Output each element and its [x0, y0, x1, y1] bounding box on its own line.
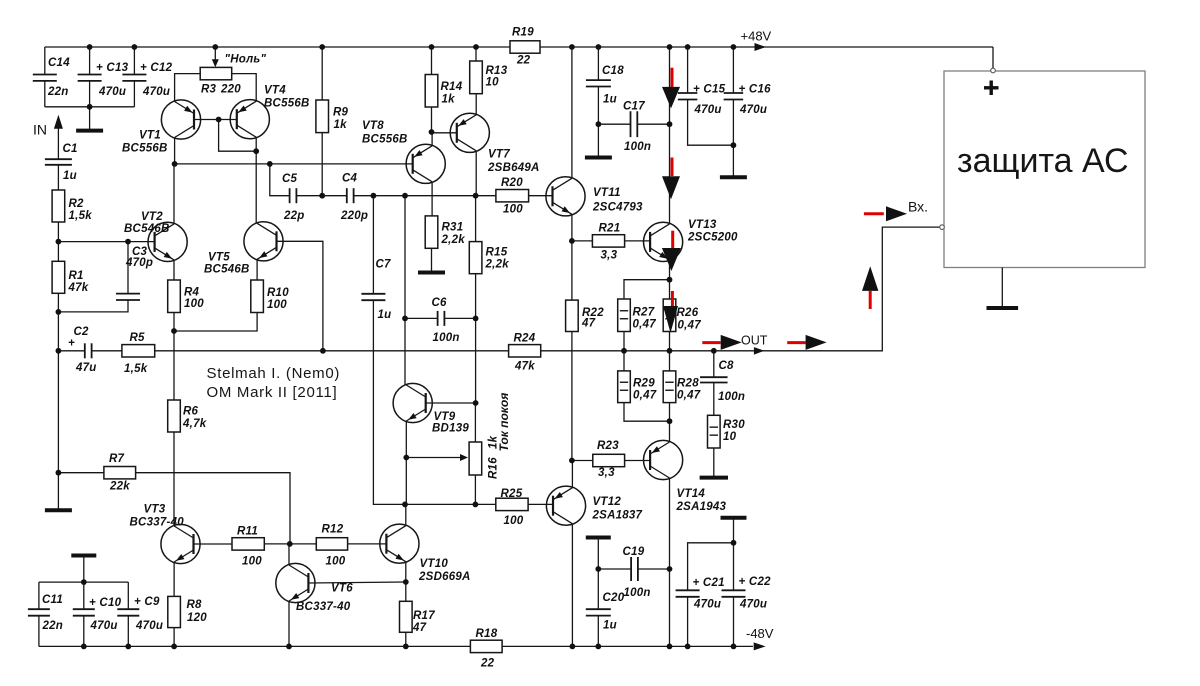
wire R16 bottom to lower rail — [474, 475, 476, 504]
wire R1 to node — [57, 293, 59, 312]
terminal circle box top — [991, 68, 996, 73]
svg-text:Вх.: Вх. — [908, 199, 928, 215]
node junction — [570, 644, 576, 650]
arrow out2 head — [806, 335, 827, 350]
node junction — [569, 238, 575, 244]
arrow up red stem — [869, 291, 872, 309]
svg-text:-48V: -48V — [746, 626, 774, 641]
svg-text:22: 22 — [516, 55, 531, 67]
wire R15 bottom to C6 node — [475, 274, 477, 319]
wire R29 top lead — [623, 351, 625, 371]
svg-text:BC337-40: BC337-40 — [296, 601, 351, 613]
node junction — [125, 239, 131, 245]
node junction — [125, 644, 131, 650]
node junction — [267, 161, 273, 167]
svg-text:0,47: 0,47 — [633, 390, 657, 402]
svg-text:C14: C14 — [48, 57, 70, 69]
wire VT13 collector up to rail — [669, 124, 671, 224]
wire VT11 emitter down — [571, 214, 573, 241]
wire R2 to node — [57, 222, 59, 242]
node junction — [667, 644, 673, 650]
svg-text:2SC5200: 2SC5200 — [687, 232, 738, 244]
label 1k rotated — [488, 435, 500, 449]
svg-text:R29: R29 — [633, 378, 655, 390]
svg-text:IN: IN — [33, 121, 47, 137]
svg-text:R6: R6 — [183, 406, 199, 418]
svg-text:VT12: VT12 — [593, 496, 622, 508]
svg-text:470u: 470u — [90, 620, 118, 632]
wire C15 top lead — [687, 47, 689, 93]
wire C1 to R2 — [57, 165, 59, 190]
wire R3 right to VT4 emitter — [232, 74, 257, 102]
ground under C13 — [76, 107, 103, 131]
wire R14 bottom to node — [431, 107, 433, 132]
wire VT14 collector down — [669, 478, 671, 646]
node junction — [403, 644, 409, 650]
svg-text:100n: 100n — [718, 391, 745, 403]
node junction — [731, 540, 737, 546]
wire collectors bus — [175, 163, 412, 165]
wire base node down to VT4 collector — [219, 120, 257, 152]
arrow current B head — [662, 176, 680, 199]
svg-text:2SA1943: 2SA1943 — [676, 501, 727, 513]
wire VT6 base lead — [308, 582, 405, 583]
node junction — [371, 193, 377, 199]
node junction — [569, 458, 575, 464]
svg-text:BC556B: BC556B — [122, 143, 168, 155]
svg-text:Ток покоя: Ток покоя — [497, 393, 511, 452]
transistor VT6 BC337-40 — [276, 563, 353, 613]
svg-text:100: 100 — [242, 556, 262, 568]
svg-text:470p: 470p — [125, 257, 153, 269]
node junction — [473, 502, 479, 508]
svg-text:R16: R16 — [488, 457, 500, 479]
svg-text:+: + — [68, 338, 75, 350]
wire R15 top lead — [475, 196, 477, 242]
wire rail to box — [992, 47, 994, 68]
svg-text:1,5k: 1,5k — [69, 210, 93, 222]
svg-text:2SA1837: 2SA1837 — [592, 510, 643, 522]
svg-text:R26: R26 — [677, 307, 699, 319]
svg-text:100n: 100n — [624, 587, 651, 599]
wire down to R7 node — [57, 351, 59, 473]
svg-text:VT4: VT4 — [264, 85, 286, 97]
svg-text:C19: C19 — [623, 546, 645, 558]
wire C8 to R30 — [713, 383, 715, 416]
wire C4 right to node — [354, 195, 374, 197]
transistor VT12 2SA1837 — [546, 486, 642, 525]
resistor R9 — [316, 100, 349, 133]
resistor R24 — [509, 333, 541, 373]
wire R28 top lead — [669, 351, 671, 371]
svg-text:47: 47 — [581, 318, 596, 330]
arrow Vx head — [886, 206, 907, 221]
capacitor C11 — [28, 594, 63, 632]
wire C12 top lead — [133, 47, 135, 75]
svg-text:1u: 1u — [603, 620, 617, 632]
svg-text:BC337-40: BC337-40 — [130, 517, 185, 529]
resistor R28 — [663, 371, 701, 403]
wire emitter node to R27 bend — [624, 280, 670, 299]
node junction — [56, 470, 62, 476]
svg-text:470u: 470u — [739, 599, 767, 611]
svg-text:VT6: VT6 — [331, 583, 353, 595]
svg-text:R12: R12 — [322, 524, 344, 536]
arrow current A red stem — [671, 68, 674, 87]
ground under C15 C16 — [720, 145, 747, 177]
svg-text:1u: 1u — [603, 94, 617, 106]
arrow current C head — [662, 248, 681, 271]
resistor R21 — [592, 223, 624, 262]
node junction — [595, 644, 601, 650]
transistor VT4 BC556B — [230, 85, 309, 139]
capacitor C16 — [724, 84, 771, 117]
wire R14 top lead — [431, 47, 433, 75]
wire C6 right lead — [444, 317, 475, 319]
resistor R27 — [618, 299, 657, 332]
capacitor C7 — [361, 259, 391, 322]
arrow out2 red stem — [787, 341, 805, 344]
node junction — [81, 579, 87, 585]
svg-text:100n: 100n — [433, 332, 460, 344]
svg-text:C20: C20 — [603, 592, 625, 604]
wire C6 left lead — [405, 317, 438, 319]
node junction — [429, 44, 435, 50]
svg-text:1u: 1u — [378, 309, 392, 321]
svg-text:VT13: VT13 — [688, 219, 717, 231]
wire R4 to tail node — [173, 313, 175, 332]
node junction — [667, 44, 673, 50]
wire C9 bottom lead — [127, 616, 129, 647]
wire VT9 emitter to lower rail — [405, 458, 407, 505]
wire R26 top lead — [669, 280, 671, 299]
rail tap above C22 — [721, 518, 747, 543]
svg-text:2SD669A: 2SD669A — [418, 571, 471, 583]
capacitor C18 — [586, 65, 624, 106]
svg-text:22n: 22n — [47, 86, 69, 98]
resistor R7 — [104, 453, 136, 493]
wire C20 top lead — [597, 569, 599, 609]
wire VT5 base to feedback node — [277, 241, 323, 350]
svg-text:10: 10 — [723, 431, 737, 443]
ground under R30 — [700, 448, 728, 478]
wire C18 bottom lead — [597, 87, 599, 125]
wire node to VT14 emitter — [669, 421, 671, 442]
svg-text:C7: C7 — [376, 259, 392, 271]
arrow on output wire — [754, 347, 765, 355]
wire VT9 collector up — [404, 318, 406, 385]
node junction — [402, 502, 408, 508]
wire feedback node to C2 — [58, 350, 84, 352]
wire C2 to R5 — [92, 350, 122, 352]
wire node to R1 — [57, 242, 59, 262]
wire R22 down across output — [571, 332, 573, 461]
transistor VT9 BD139 — [393, 383, 469, 434]
rail tap above C10 — [71, 556, 96, 583]
node junction — [172, 161, 178, 167]
svg-text:+48V: +48V — [741, 29, 772, 44]
arrow to R3 wiper — [214, 47, 216, 61]
node junction — [253, 148, 259, 154]
wire C14 bottom lead — [44, 81, 46, 107]
arrow current D head — [663, 306, 678, 333]
node junction — [596, 44, 602, 50]
capacitor C1 — [45, 143, 78, 182]
ground bottom of input divider — [45, 473, 72, 511]
svg-text:0,47: 0,47 — [678, 320, 702, 332]
wire R9 bottom lead — [321, 133, 323, 196]
node junction — [402, 316, 408, 322]
resistor R20 — [496, 177, 529, 216]
wire VT5 emitter to R10 — [256, 259, 258, 280]
svg-text:10: 10 — [486, 77, 500, 89]
wire C16 bottom lead — [732, 100, 734, 146]
wire R23 to VT14 base — [625, 460, 651, 462]
node junction — [171, 328, 177, 334]
svg-text:R19: R19 — [512, 27, 534, 39]
wire C9 top lead — [127, 582, 129, 609]
wire R25 to VT12 base — [528, 503, 553, 505]
resistor R11 — [232, 526, 264, 568]
wire C21 bottom lead — [687, 597, 689, 647]
wire VT12 collector down — [571, 524, 573, 647]
wire VT3 emitter to R8 — [173, 562, 175, 596]
svg-text:"Ноль": "Ноль" — [225, 54, 267, 66]
node junction — [667, 418, 673, 424]
capacitor C20 — [586, 592, 625, 632]
node junction — [429, 129, 435, 135]
rail tap above C20 — [586, 538, 611, 570]
wire C12 bottom lead — [133, 81, 135, 107]
wire R7 left node — [58, 472, 104, 474]
svg-text:C2: C2 — [74, 326, 90, 338]
wire VT9 emitter down — [405, 421, 407, 458]
svg-text:R15: R15 — [486, 247, 508, 259]
wire C5 branch from collector bus — [270, 164, 290, 196]
wire R12 to VT10 base — [348, 543, 387, 545]
svg-text:2,2k: 2,2k — [485, 259, 510, 271]
svg-text:C1: C1 — [63, 143, 78, 155]
wire VT6 emitter down — [288, 601, 290, 646]
svg-text:1,5k: 1,5k — [124, 363, 148, 375]
svg-text:BD139: BD139 — [432, 423, 469, 435]
svg-text:R20: R20 — [501, 177, 523, 189]
svg-text:VT9: VT9 — [434, 411, 456, 423]
wire C3 top lead — [127, 242, 129, 294]
svg-text:R27: R27 — [633, 307, 655, 319]
wire R3 left to VT1 emitter — [175, 74, 201, 102]
capacitor C12 — [122, 62, 172, 98]
node junction — [473, 44, 479, 50]
resistor R30 — [708, 415, 746, 448]
wire VT10 emitter down — [405, 562, 407, 602]
svg-text:470u: 470u — [142, 86, 170, 98]
node junction — [731, 142, 737, 148]
svg-text:OM Mark II [2011]: OM Mark II [2011] — [207, 384, 338, 401]
wire VT8 collector down to R31 — [431, 182, 433, 216]
node junction — [56, 239, 62, 245]
svg-text:100: 100 — [267, 299, 287, 311]
capacitor C5 — [282, 173, 305, 222]
arrow -48V direction — [754, 642, 766, 650]
wire C4 left lead — [322, 195, 347, 197]
svg-text:47k: 47k — [514, 361, 535, 373]
svg-text:R9: R9 — [333, 107, 349, 119]
transistor VT13 2SC5200 — [644, 219, 739, 262]
transistor VT10 2SD669A — [380, 524, 471, 583]
node junction — [685, 44, 691, 50]
resistor R18 — [470, 628, 502, 670]
svg-text:VT1: VT1 — [139, 130, 161, 142]
wire C8 top lead — [713, 351, 715, 377]
label Ток покоя rotated — [497, 393, 511, 452]
node junction — [667, 566, 673, 572]
svg-text:OUT: OUT — [741, 334, 768, 348]
wire R21 left lead — [572, 240, 593, 242]
resistor R10 — [251, 280, 289, 313]
node junction — [81, 644, 87, 650]
svg-text:470u: 470u — [693, 599, 721, 611]
wire C11 lead — [38, 582, 40, 609]
wire VT12 emitter up — [571, 461, 573, 488]
svg-text:R14: R14 — [441, 81, 463, 93]
node junction — [596, 121, 602, 127]
svg-text:R17: R17 — [413, 610, 435, 622]
wire C11 bottom bend — [38, 616, 40, 647]
wire rail arrow line — [669, 47, 671, 124]
capacitor C22 — [722, 576, 772, 611]
capacitor C10 — [73, 597, 122, 632]
wire VT10 collector up — [405, 504, 407, 525]
ground under protection box — [987, 268, 1019, 309]
arrow IN input — [54, 115, 63, 129]
transistor VT8 BC556B — [362, 120, 445, 183]
resistor R6 — [168, 400, 207, 432]
wire R7 right bend down — [136, 473, 290, 544]
svg-text:+ C16: + C16 — [739, 84, 772, 96]
svg-text:47k: 47k — [68, 282, 89, 294]
ground under C18 — [585, 124, 612, 157]
transistor VT2 BC546B — [124, 211, 187, 262]
wire R29 bottom bend — [624, 403, 670, 422]
node junction — [320, 348, 326, 354]
wire VT2 collector up — [173, 164, 175, 224]
svg-text:0,47: 0,47 — [677, 390, 701, 402]
capacitor C13 — [78, 62, 129, 98]
svg-text:1k: 1k — [442, 94, 456, 106]
wire C19 right lead — [638, 568, 670, 570]
node junction — [473, 316, 479, 322]
node junction — [212, 44, 218, 50]
node junction — [667, 348, 673, 354]
wire VT7 collector down — [475, 151, 477, 196]
wire VT4 collector down — [255, 137, 257, 223]
svg-text:Stelmah I. (Nem0): Stelmah I. (Nem0) — [207, 365, 341, 382]
svg-text:+ C10: + C10 — [89, 597, 122, 609]
svg-text:47u: 47u — [75, 362, 97, 374]
resistor R22 — [566, 300, 605, 331]
arrow +48V direction — [755, 43, 767, 51]
resistor R16 bias trimmer — [469, 442, 482, 475]
svg-text:R4: R4 — [184, 287, 200, 299]
svg-text:100: 100 — [184, 298, 204, 310]
wire R9 top lead — [321, 47, 323, 100]
capacitor C15 — [678, 84, 726, 117]
node junction — [711, 348, 717, 354]
wire VT9 base lead — [426, 402, 476, 404]
node junction — [216, 117, 222, 123]
svg-text:220: 220 — [220, 84, 241, 96]
wire C14 top lead — [44, 47, 46, 75]
arrow current B red stem — [671, 158, 674, 177]
svg-text:C18: C18 — [602, 65, 624, 77]
arrow OUT head — [721, 335, 742, 350]
svg-text:1u: 1u — [63, 170, 77, 182]
wire R20 to VT11 base — [529, 195, 553, 197]
svg-text:R18: R18 — [476, 628, 498, 640]
transistor VT3 BC337-40 — [130, 504, 201, 564]
svg-text:R3: R3 — [201, 84, 217, 96]
resistor R13 — [470, 61, 508, 94]
svg-text:R2: R2 — [69, 198, 85, 210]
svg-text:VT5: VT5 — [208, 252, 230, 264]
wire VT6 collector up — [289, 544, 290, 565]
wire VT1 collector down — [174, 138, 176, 164]
ground under R31 — [418, 248, 445, 272]
wire C21 bend — [688, 543, 734, 591]
wire VT3 base lead — [194, 543, 233, 545]
wire VT11 emitter to R22 — [571, 241, 573, 300]
node junction — [319, 44, 325, 50]
wire VT13 emitter down — [669, 260, 671, 280]
label R16 rotated — [488, 457, 500, 479]
capacitor C17 — [623, 101, 651, 154]
svg-text:2,2k: 2,2k — [441, 234, 466, 246]
svg-text:BC546B: BC546B — [204, 264, 250, 276]
wire +48V rail right section — [540, 46, 993, 48]
wire C15 bottom bend — [688, 100, 734, 146]
wire C3 bottom bend — [58, 300, 128, 312]
svg-text:+ C15: + C15 — [693, 84, 726, 96]
wire R23 left lead — [572, 460, 593, 462]
wire R21 to VT13 base — [625, 240, 651, 242]
node junction — [287, 541, 293, 547]
svg-text:R28: R28 — [677, 378, 699, 390]
svg-text:VT3: VT3 — [144, 504, 166, 516]
node junction — [621, 348, 627, 354]
node junction — [87, 44, 93, 50]
capacitor C19 — [623, 546, 651, 599]
wire C20 bottom lead — [597, 616, 599, 647]
node junction — [667, 121, 673, 127]
svg-text:470u: 470u — [739, 104, 767, 116]
svg-text:C17: C17 — [623, 101, 645, 113]
node junction — [685, 644, 691, 650]
resistor R29 — [618, 371, 657, 403]
wire C18 top lead — [597, 47, 599, 80]
wire R6 to VT3 collector — [173, 432, 175, 526]
svg-text:VT2: VT2 — [141, 211, 163, 223]
resistor R15 — [469, 242, 509, 274]
svg-text:VT14: VT14 — [677, 488, 706, 500]
node junction — [286, 644, 292, 650]
svg-text:100: 100 — [503, 204, 523, 216]
svg-text:100n: 100n — [624, 141, 651, 153]
arrow Vx red stem — [864, 212, 884, 215]
wire C5 right to node — [296, 195, 322, 197]
capacitor C8 — [700, 360, 745, 403]
svg-text:C4: C4 — [342, 173, 358, 185]
